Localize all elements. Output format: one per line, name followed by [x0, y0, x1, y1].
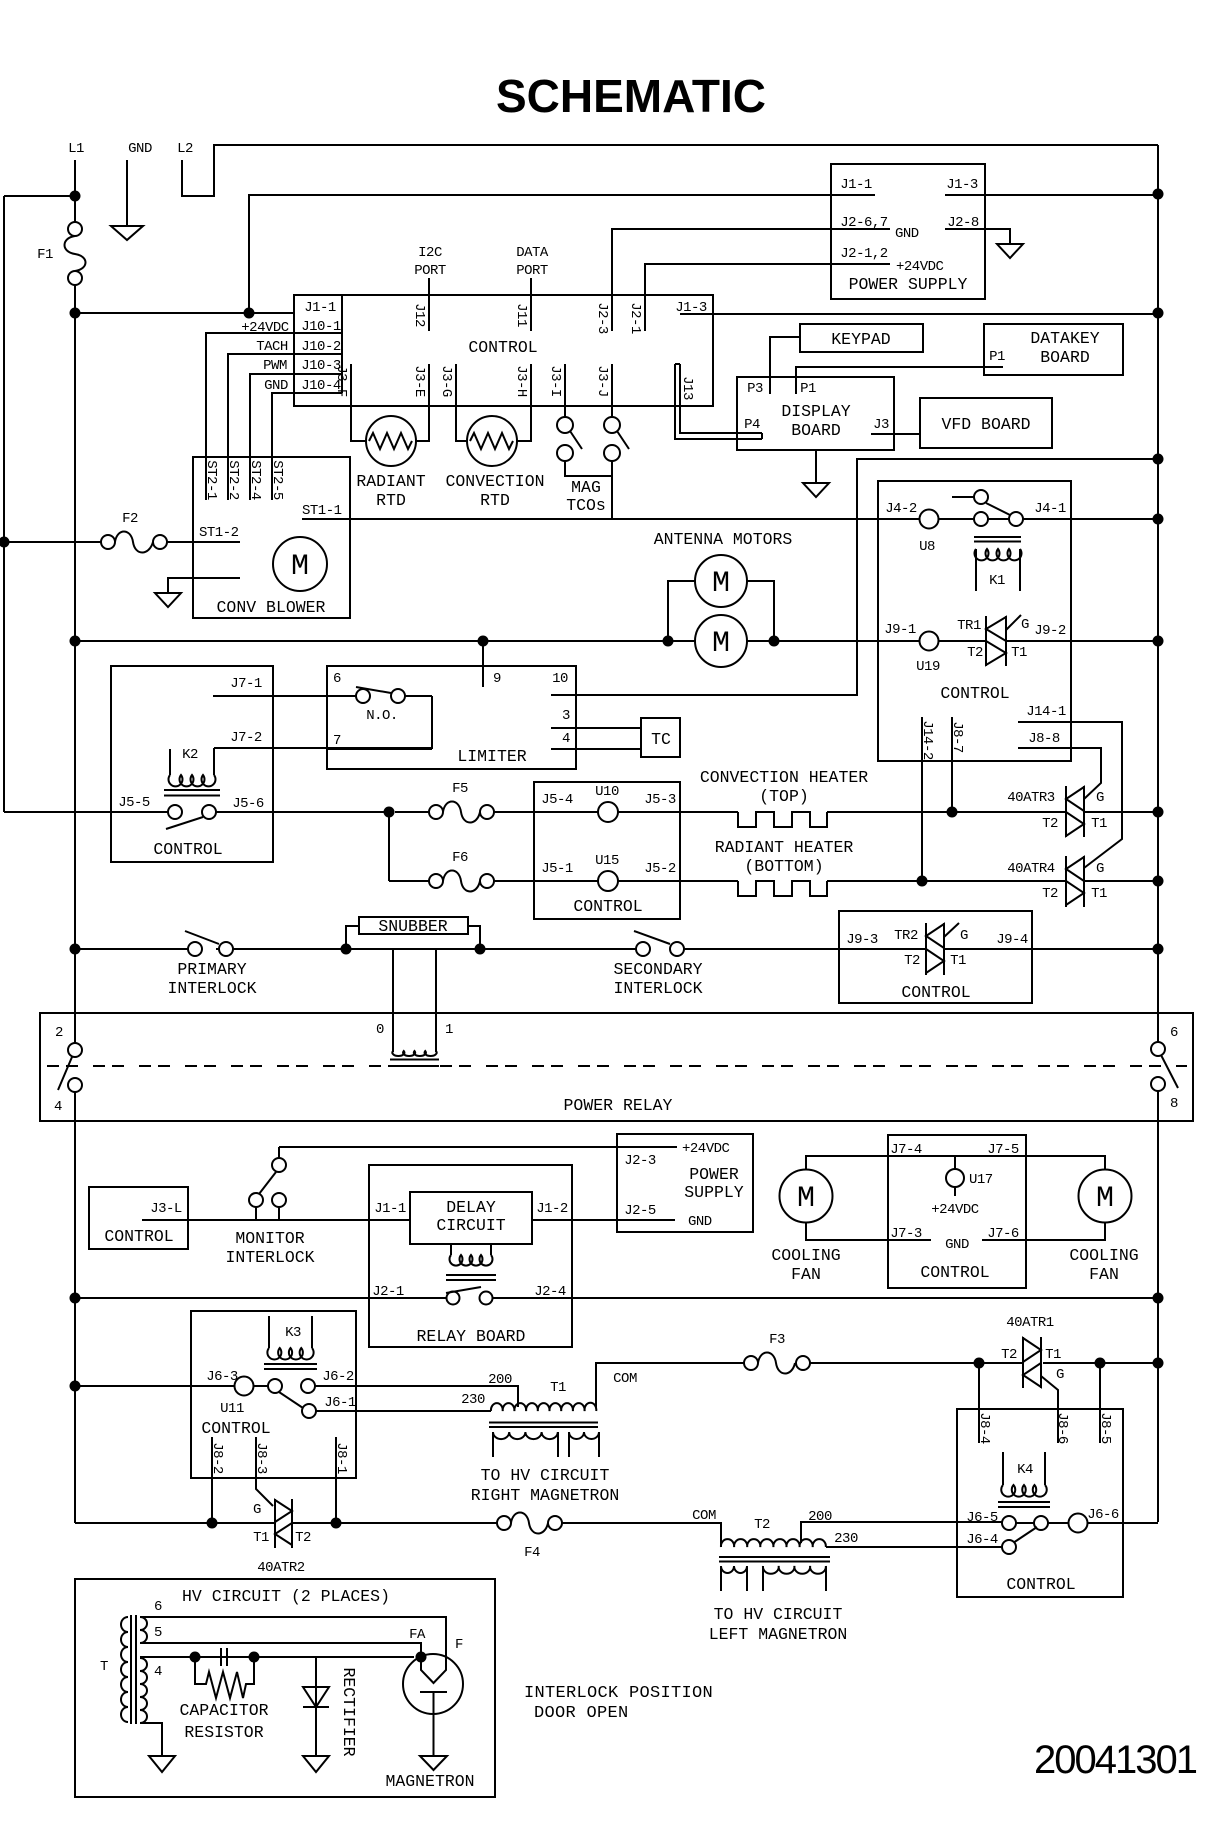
svg-text:J3-E: J3-E: [411, 365, 427, 397]
switch K4 contact: [1034, 1516, 1048, 1530]
svg-text:3: 3: [562, 708, 570, 724]
node antenna row rail B: [70, 636, 81, 647]
wire GND stem: [126, 160, 128, 226]
svg-text:CONTROL: CONTROL: [573, 897, 642, 916]
svg-text:J3: J3: [873, 417, 889, 433]
svg-text:MAGNETRON: MAGNETRON: [385, 1772, 474, 1791]
wire datakey P1 to display P1: [796, 367, 984, 394]
svg-text:J5-5: J5-5: [118, 795, 150, 811]
svg-text:J12: J12: [411, 303, 427, 327]
wire F6 drop: [388, 812, 390, 881]
wire N.O. to loop: [405, 695, 432, 697]
svg-text:GND: GND: [128, 141, 152, 157]
node rail B at main row: [70, 308, 81, 319]
relay terminal 8: [1151, 1077, 1165, 1091]
T2 secondary right: [763, 1566, 826, 1574]
svg-text:J2-3: J2-3: [624, 1153, 656, 1169]
svg-text:T1: T1: [1045, 1347, 1061, 1363]
node snubber left: [341, 944, 352, 955]
svg-text:J10-2: J10-2: [301, 339, 341, 355]
relay coil delay: [451, 1244, 491, 1255]
magnetron anode: [420, 1692, 447, 1756]
svg-text:LIMITER: LIMITER: [457, 747, 526, 766]
pin J8-3: [256, 1437, 273, 1506]
svg-text:RIGHT MAGNETRON: RIGHT MAGNETRON: [471, 1486, 620, 1505]
control U10/U15 box: [534, 782, 680, 919]
svg-text:CONTROL: CONTROL: [201, 1419, 270, 1438]
wire J6-6 to rail: [1016, 1522, 1158, 1524]
relay contact K1: [952, 496, 974, 498]
wire 40ATR2 row: [75, 1523, 721, 1547]
svg-text:J5-2: J5-2: [644, 861, 676, 877]
svg-text:CONTROL: CONTROL: [920, 1263, 989, 1282]
node J1-1 drop junction: [244, 308, 255, 319]
svg-text:DATAKEY: DATAKEY: [1030, 329, 1099, 348]
svg-text:T2: T2: [295, 1530, 311, 1546]
T1 secondary right: [569, 1432, 599, 1439]
pin J8-7: [951, 717, 953, 812]
node J14-2 tap: [917, 876, 928, 887]
heater element convection: [738, 812, 827, 827]
T2 core: [719, 1557, 830, 1562]
wire heater top to 40ATR3: [827, 811, 1158, 813]
svg-text:40ATR2: 40ATR2: [257, 1560, 305, 1576]
svg-text:6: 6: [1170, 1025, 1178, 1041]
svg-text:J6-5: J6-5: [966, 1510, 998, 1526]
power relay dashed line: [47, 1065, 1187, 1067]
wire J1-3 to rail: [945, 194, 1158, 196]
svg-text:J3-F: J3-F: [333, 365, 349, 397]
pin J11: [530, 278, 532, 331]
node TR2 rail: [1153, 944, 1164, 955]
svg-text:INTERLOCK: INTERLOCK: [225, 1248, 314, 1267]
svg-text:ST2-1: ST2-1: [203, 460, 219, 500]
svg-text:J8-4: J8-4: [976, 1412, 992, 1444]
node J8-4 tap: [974, 1358, 985, 1369]
svg-text:G: G: [1096, 790, 1104, 806]
svg-text:PWM: PWM: [263, 358, 287, 374]
node J6-3 rail B: [70, 1381, 81, 1392]
control U17 box: [888, 1135, 1026, 1288]
svg-text:J7-2: J7-2: [230, 730, 262, 746]
wire keypad to P3: [770, 337, 800, 394]
svg-text:PORT: PORT: [516, 263, 548, 279]
svg-text:MAG: MAG: [571, 478, 601, 497]
node antenna right: [769, 636, 780, 647]
svg-text:ST2-2: ST2-2: [225, 460, 241, 500]
node rail R at J1-3: [1153, 308, 1164, 319]
control K3/U11 box: [191, 1311, 356, 1478]
svg-text:M: M: [797, 1182, 815, 1216]
thermocouple TC box: [641, 718, 680, 757]
svg-text:P3: P3: [747, 381, 763, 397]
wire J3 to VFD: [894, 433, 920, 435]
pin J12: [428, 278, 430, 331]
wire power supply J1-1 drop: [249, 195, 831, 313]
wire J5-5 row: [4, 811, 168, 813]
svg-text:J5-6: J5-6: [232, 796, 264, 812]
svg-text:0: 0: [376, 1022, 384, 1038]
T1 primary: [491, 1403, 596, 1411]
svg-text:J1-1: J1-1: [840, 177, 872, 193]
pin J3-I: [564, 364, 566, 417]
switch K2 contact: [168, 805, 182, 819]
node limiter pin9 tap: [478, 636, 489, 647]
fuse F1: [68, 222, 82, 236]
svg-text:SCHEMATIC: SCHEMATIC: [496, 70, 766, 122]
svg-text:MONITOR: MONITOR: [235, 1229, 304, 1248]
pin J8-4: [978, 1363, 980, 1443]
wire antenna row: [75, 640, 1158, 642]
resistor HV: [195, 1657, 254, 1698]
svg-text:INTERLOCK: INTERLOCK: [613, 979, 702, 998]
svg-text:G: G: [1056, 1367, 1064, 1383]
wire main row to control box: [75, 312, 294, 314]
T secondary top: [140, 1617, 147, 1643]
node antenna left: [663, 636, 674, 647]
svg-text:TO HV CIRCUIT: TO HV CIRCUIT: [481, 1466, 610, 1485]
ground symbol top: [111, 226, 143, 240]
wire J7 top row: [888, 1155, 1026, 1157]
svg-text:T2: T2: [1001, 1347, 1017, 1363]
svg-text:CAPACITOR: CAPACITOR: [179, 1701, 268, 1720]
VFD board box: [920, 398, 1052, 448]
svg-text:T1: T1: [550, 1380, 566, 1396]
svg-text:CIRCUIT: CIRCUIT: [436, 1216, 505, 1235]
svg-text:I2C: I2C: [418, 245, 442, 261]
svg-text:J3-I: J3-I: [547, 365, 563, 397]
wire antenna motor bracket left: [668, 581, 695, 641]
svg-text:RESISTOR: RESISTOR: [184, 1723, 263, 1742]
cooling fan left: [780, 1170, 833, 1223]
wire top heater row in box: [534, 811, 738, 813]
node J2 row rail R: [1153, 1293, 1164, 1304]
svg-text:GND: GND: [264, 378, 288, 394]
wire limiter pin10 riser: [576, 459, 1158, 695]
svg-text:T1: T1: [1091, 816, 1107, 832]
svg-text:J13: J13: [679, 376, 695, 400]
svg-text:J9-2: J9-2: [1034, 623, 1066, 639]
transformer power relay coil: [393, 950, 436, 1052]
svg-text:U11: U11: [220, 1401, 244, 1417]
magnetron: [403, 1654, 463, 1714]
svg-text:+24VDC: +24VDC: [682, 1141, 730, 1157]
svg-text:U8: U8: [919, 539, 935, 555]
pin J8-5: [1099, 1363, 1101, 1443]
wire +24VDC to power supply: [279, 1146, 617, 1148]
svg-text:TCOs: TCOs: [566, 496, 606, 515]
svg-text:DOOR OPEN: DOOR OPEN: [534, 1704, 629, 1723]
control K2 box: [111, 666, 273, 862]
wire ST2-2 from TACH row: [228, 354, 342, 500]
wire MAG TCO bottoms: [565, 461, 612, 519]
svg-text:CONTROL: CONTROL: [940, 684, 1009, 703]
svg-text:P1: P1: [989, 349, 1005, 365]
wire J1-2 to power supply J2-5: [532, 1219, 675, 1221]
pin J8-1: [335, 1437, 337, 1523]
svg-text:SECONDARY: SECONDARY: [613, 960, 702, 979]
svg-text:4: 4: [54, 1099, 62, 1115]
svg-text:4: 4: [154, 1664, 162, 1680]
svg-text:COOLING: COOLING: [771, 1246, 840, 1265]
svg-text:T1: T1: [1091, 886, 1107, 902]
svg-text:T2: T2: [1042, 816, 1058, 832]
sensor U17: [954, 1156, 956, 1196]
svg-text:GND: GND: [895, 226, 919, 242]
wire J2-1,2 to control J2-1: [645, 264, 831, 331]
pin J3-F: [351, 364, 366, 441]
svg-text:COOLING: COOLING: [1069, 1246, 1138, 1265]
wire F3 to 40ATR1 to rail: [810, 1362, 1158, 1364]
svg-text:F3: F3: [769, 1332, 785, 1348]
ground symbol J2-8: [997, 244, 1023, 258]
pin J14-2: [921, 717, 923, 881]
svg-text:INTERLOCK: INTERLOCK: [167, 979, 256, 998]
control K4/U14 box: [957, 1409, 1123, 1597]
node F2 tap on rail A: [0, 537, 10, 548]
wire antenna motor bracket right: [747, 581, 774, 641]
switch MAG TCO 1: [557, 417, 573, 433]
svg-text:9: 9: [493, 671, 501, 687]
svg-text:PORT: PORT: [414, 263, 446, 279]
svg-text:J8-5: J8-5: [1097, 1412, 1113, 1444]
HV circuit box: [75, 1579, 495, 1797]
svg-text:RECTIFIER: RECTIFIER: [339, 1667, 358, 1756]
svg-text:CONTROL: CONTROL: [901, 983, 970, 1002]
svg-text:BOARD: BOARD: [791, 421, 841, 440]
svg-text:8: 8: [1170, 1096, 1178, 1112]
svg-text:G: G: [960, 928, 968, 944]
svg-text:T: T: [100, 1659, 108, 1675]
wire right rail: [1157, 145, 1159, 1522]
power supply lower box: [617, 1134, 753, 1232]
T2 secondary left: [721, 1566, 747, 1573]
power supply U-PS1 box: [831, 164, 985, 299]
svg-text:P4: P4: [744, 417, 760, 433]
svg-text:TR1: TR1: [957, 618, 981, 634]
pin J3-J: [611, 364, 613, 417]
motor M antenna top: [695, 555, 747, 607]
svg-text:J6-3: J6-3: [206, 1369, 238, 1385]
svg-text:SNUBBER: SNUBBER: [378, 917, 447, 936]
svg-text:L1: L1: [68, 141, 84, 157]
svg-text:K2: K2: [182, 747, 198, 763]
svg-text:40ATR3: 40ATR3: [1007, 790, 1055, 806]
svg-text:J5-1: J5-1: [541, 861, 573, 877]
svg-text:J4-2: J4-2: [885, 501, 917, 517]
svg-text:J14-1: J14-1: [1026, 704, 1066, 720]
motor M conv blower: [273, 537, 327, 591]
svg-text:J3-L: J3-L: [150, 1201, 182, 1217]
conv blower box: [193, 457, 350, 618]
T1 core: [489, 1423, 598, 1428]
svg-text:F5: F5: [452, 781, 468, 797]
svg-text:PRIMARY: PRIMARY: [177, 960, 246, 979]
node antenna rail R: [1153, 636, 1164, 647]
limiter box: [327, 666, 576, 769]
svg-text:J6-4: J6-4: [966, 1532, 998, 1548]
control U8/K1 box: [878, 481, 1071, 761]
svg-text:4: 4: [562, 731, 570, 747]
svg-text:FAN: FAN: [791, 1265, 821, 1284]
svg-text:7: 7: [333, 733, 341, 749]
svg-text:F: F: [455, 1637, 463, 1653]
svg-text:RTD: RTD: [376, 491, 406, 510]
svg-text:T2: T2: [904, 953, 920, 969]
wire heater bottom to 40ATR4: [827, 880, 1158, 882]
svg-text:J8-7: J8-7: [949, 721, 965, 753]
wire ST2-1 from +24VDC row: [206, 333, 333, 500]
node pin10 rail: [1153, 454, 1164, 465]
resistor RADIANT RTD: [366, 416, 416, 466]
svg-text:G: G: [1021, 617, 1029, 633]
relay terminal 4: [68, 1078, 82, 1092]
svg-text:230: 230: [461, 1392, 485, 1408]
svg-text:VFD BOARD: VFD BOARD: [941, 415, 1030, 434]
control row lines: [294, 333, 342, 393]
svg-text:FA: FA: [409, 1627, 426, 1643]
svg-text:TO HV CIRCUIT: TO HV CIRCUIT: [714, 1605, 843, 1624]
wire 40ATR1 G to J8-6: [1041, 1376, 1058, 1443]
svg-text:K1: K1: [989, 573, 1005, 589]
svg-text:CONTROL: CONTROL: [153, 840, 222, 859]
svg-text:J14-2: J14-2: [919, 720, 935, 760]
svg-text:+24VDC: +24VDC: [931, 1202, 979, 1218]
svg-text:U17: U17: [969, 1172, 993, 1188]
svg-text:T1: T1: [1011, 645, 1027, 661]
svg-text:GND: GND: [945, 1237, 969, 1253]
svg-text:U15: U15: [595, 853, 619, 869]
snubber box: [359, 917, 468, 934]
switch monitor interlock: [249, 1193, 263, 1207]
svg-text:J9-4: J9-4: [996, 932, 1028, 948]
node J8-5 tap: [1095, 1358, 1106, 1369]
svg-text:J5-4: J5-4: [541, 792, 573, 808]
node J2 row rail B: [70, 1293, 81, 1304]
resistor CONVECTION RTD: [467, 416, 517, 466]
svg-text:G: G: [253, 1502, 261, 1518]
svg-text:CONTROL: CONTROL: [1006, 1575, 1075, 1594]
wire L1 to left rail: [4, 195, 75, 197]
svg-text:J3-H: J3-H: [513, 365, 529, 397]
svg-text:J1-1: J1-1: [374, 1201, 406, 1217]
svg-text:+24VDC: +24VDC: [896, 259, 944, 275]
svg-text:POWER RELAY: POWER RELAY: [564, 1096, 673, 1115]
svg-text:6: 6: [154, 1599, 162, 1615]
svg-text:F1: F1: [37, 247, 53, 263]
svg-text:CONVECTION: CONVECTION: [445, 472, 544, 491]
wire L2 jog: [182, 145, 1158, 196]
T primary vertical: [121, 1617, 128, 1722]
svg-text:ANTENNA MOTORS: ANTENNA MOTORS: [654, 530, 793, 549]
svg-text:DISPLAY: DISPLAY: [781, 402, 850, 421]
svg-text:RTD: RTD: [480, 491, 510, 510]
wire snubber right drop: [468, 926, 480, 949]
svg-text:RADIANT HEATER: RADIANT HEATER: [715, 838, 854, 857]
ground magnetron: [420, 1756, 447, 1770]
svg-text:J8-3: J8-3: [253, 1442, 269, 1474]
svg-text:DELAY: DELAY: [446, 1198, 496, 1217]
svg-text:CONTROL: CONTROL: [104, 1227, 173, 1246]
svg-text:T2: T2: [967, 645, 983, 661]
rectifier diode: [315, 1657, 317, 1756]
wire L1 stem: [74, 160, 76, 222]
capacitor HV: [190, 1652, 201, 1663]
wire ST1-2 from F2: [168, 541, 240, 543]
wire J6-2 to T1 200 tap: [315, 1386, 518, 1407]
svg-text:J8-1: J8-1: [333, 1442, 349, 1474]
node L1 junction: [70, 191, 81, 202]
ground display board: [815, 450, 817, 483]
pin J13 ribbon: [675, 364, 762, 439]
svg-text:M: M: [712, 567, 730, 601]
svg-text:J3-G: J3-G: [438, 365, 454, 397]
wire left rail A: [3, 196, 5, 812]
control U-CTRL box: [294, 295, 713, 406]
pin J3-E: [416, 364, 429, 441]
svg-text:10: 10: [552, 671, 568, 687]
svg-text:U19: U19: [916, 659, 940, 675]
svg-text:J8-2: J8-2: [209, 1442, 225, 1474]
svg-text:5: 5: [154, 1625, 162, 1641]
svg-text:200: 200: [488, 1372, 512, 1388]
svg-text:ST1-2: ST1-2: [199, 525, 239, 541]
svg-text:CONV BLOWER: CONV BLOWER: [217, 598, 326, 617]
ground conv blower: [168, 578, 240, 593]
svg-text:2: 2: [55, 1025, 63, 1041]
svg-text:GND: GND: [688, 1214, 712, 1230]
svg-text:M: M: [291, 550, 309, 584]
ground T HV: [140, 1723, 162, 1756]
svg-text:J9-3: J9-3: [846, 932, 878, 948]
node rail R top: [1153, 189, 1164, 200]
node J8-1 tap: [331, 1518, 342, 1529]
T secondary bottom: [140, 1658, 147, 1723]
svg-text:U10: U10: [595, 784, 619, 800]
svg-text:INTERLOCK POSITION: INTERLOCK POSITION: [524, 1684, 713, 1703]
relay board box: [369, 1165, 572, 1347]
node F3 rail: [1153, 1358, 1164, 1369]
wire J6-1 to T1 230: [316, 1410, 491, 1412]
svg-text:J1-1: J1-1: [304, 300, 336, 316]
pin J3-G: [456, 364, 467, 441]
svg-text:CONTROL: CONTROL: [468, 338, 537, 357]
switch primary interlock: [188, 942, 202, 956]
svg-text:ST2-4: ST2-4: [247, 460, 263, 500]
svg-text:J6-1: J6-1: [324, 1395, 356, 1411]
svg-text:POWER SUPPLY: POWER SUPPLY: [849, 275, 968, 294]
pin J3-H: [517, 364, 531, 441]
control J3-L box: [89, 1187, 188, 1249]
node snubber right: [475, 944, 486, 955]
svg-text:F2: F2: [122, 511, 138, 527]
pin J8-2: [211, 1437, 213, 1523]
datakey board box: [984, 324, 1123, 375]
wire fan right top: [1026, 1156, 1105, 1169]
wire ST2-4 from PWM row: [250, 374, 342, 500]
keypad box: [800, 324, 923, 352]
svg-text:J2-1,2: J2-1,2: [840, 246, 888, 262]
motor M antenna bottom: [695, 615, 747, 667]
svg-text:T2: T2: [1042, 886, 1058, 902]
wire fan right bottom: [1026, 1223, 1105, 1240]
svg-text:L2: L2: [177, 141, 193, 157]
svg-text:RADIANT: RADIANT: [356, 472, 425, 491]
svg-text:J1-3: J1-3: [946, 177, 978, 193]
node F5/F6 split: [384, 807, 395, 818]
node J8-7 tap: [947, 807, 958, 818]
svg-text:J7-1: J7-1: [230, 676, 262, 692]
